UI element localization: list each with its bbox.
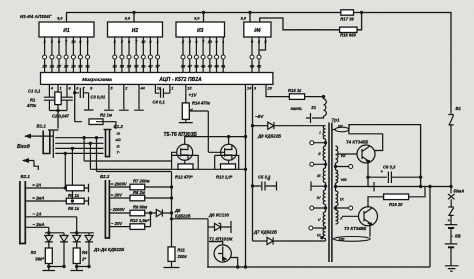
input terminal arrow Вход — [25, 135, 54, 137]
svg-text:~5V: ~5V — [255, 114, 264, 119]
И3 pin node circle — [221, 55, 225, 59]
svg-text:23: 23 — [267, 87, 273, 91]
winding IV — [323, 190, 326, 205]
svg-text:ХІІ: ХІІ — [337, 123, 344, 128]
И2 pin 2 wire — [114, 37, 116, 73]
wire XII to top right bus — [349, 125, 421, 187]
svg-text:45: 45 — [207, 64, 213, 69]
svg-text:И2: И2 — [132, 28, 139, 34]
И2 pin node circle — [127, 55, 131, 59]
И4 pin node circles — [250, 55, 254, 59]
resistor R13 — [221, 164, 236, 169]
И1 pin 1 wire — [87, 37, 89, 73]
top supply bus wire — [66, 13, 451, 107]
svg-text:В2.2: В2.2 — [100, 174, 110, 179]
svg-text:И1-И4 АЛ304Г: И1-И4 АЛ304Г — [20, 14, 52, 19]
svg-text:R8 2м: R8 2м — [133, 190, 146, 195]
svg-text:R13 1,6*: R13 1,6* — [216, 175, 233, 180]
winding VII-VIII tap terminal — [336, 163, 349, 170]
svg-text:R18 660: R18 660 — [340, 33, 357, 38]
svg-text:10: 10 — [141, 39, 146, 44]
transistor T5 — [177, 144, 193, 160]
wire drop east T5 gate — [83, 138, 85, 161]
svg-text:R2 1м: R2 1м — [100, 113, 113, 118]
svg-text:R5 1к: R5 1к — [68, 206, 80, 211]
svg-text:25: 25 — [41, 64, 47, 69]
T4 emitter wire — [367, 163, 369, 178]
winding III — [323, 168, 326, 183]
bus wire 4 — [55, 152, 103, 154]
node junction R17/R18 — [360, 11, 363, 14]
svg-text:гант.: гант. — [291, 106, 303, 111]
IC U1 Микросхема АЦП К572ПВ2А — [41, 73, 273, 85]
T6 source loop wire — [215, 155, 239, 169]
svg-text:Т4 КТ345Б: Т4 КТ345Б — [346, 140, 368, 145]
wire row to Д6/T1 — [172, 219, 210, 267]
svg-text:34: 34 — [127, 64, 132, 69]
battery cell 1 — [445, 224, 458, 226]
bottom wire left cell — [49, 264, 64, 267]
svg-text:~ 2А: ~ 2А — [33, 211, 42, 216]
T3 emitter wire — [369, 225, 371, 237]
svg-text:R16 20: R16 20 — [389, 202, 403, 207]
winding II-III tap terminal — [314, 161, 326, 169]
resistor R17 — [341, 10, 354, 15]
bottom rail wire — [207, 266, 430, 268]
И1 pin node circle — [71, 55, 75, 59]
winding VI — [323, 229, 326, 239]
winding II — [323, 146, 326, 161]
svg-text:≈ 2А: ≈ 2А — [33, 183, 42, 188]
resistor R4 — [73, 248, 80, 264]
svg-text:46: 46 — [200, 64, 206, 69]
svg-text:ХІІІ: ХІІІ — [338, 237, 346, 242]
svg-text:560*: 560* — [35, 257, 44, 262]
И2 pin 6 wire — [128, 37, 130, 73]
T1 source wire — [231, 258, 238, 268]
svg-text:С6 3,3: С6 3,3 — [383, 165, 396, 170]
И3 pin node circle — [194, 55, 198, 59]
input common terminal arrow — [23, 161, 38, 171]
svg-text:Д8 КД522Б: Д8 КД522Б — [257, 134, 281, 139]
svg-text:3,8: 3,8 — [194, 16, 200, 21]
И1 pin 7 wire — [65, 37, 67, 73]
wire jog to T4 collector — [374, 134, 383, 151]
И2 pin 4 wire — [121, 37, 123, 73]
И2 pin node circle — [141, 55, 145, 59]
И3 pin 1 wire — [222, 37, 224, 73]
svg-text:С4 0,1: С4 0,1 — [153, 100, 166, 105]
svg-text:В2.1: В2.1 — [21, 174, 31, 179]
winding VIII-IX tap bar — [336, 182, 375, 191]
svg-text:30: 30 — [78, 64, 83, 69]
svg-text:R1: R1 — [30, 98, 36, 103]
svg-text:35: 35 — [134, 64, 139, 69]
resistor R12 — [178, 164, 193, 169]
indicator И2 supply stub — [133, 13, 135, 23]
wire drop east V3 — [96, 138, 98, 172]
И1 pin node circle — [50, 55, 54, 59]
wire R18 branch — [260, 13, 362, 30]
svg-text:38: 38 — [181, 64, 186, 69]
winding V — [323, 212, 326, 227]
И1 pin 10 wire — [72, 37, 74, 73]
svg-text:Д5: Д5 — [174, 208, 181, 213]
svg-text:200к: 200к — [177, 254, 188, 259]
svg-text:ІV: ІV — [317, 195, 321, 200]
svg-text:41: 41 — [220, 64, 226, 69]
svg-text:5В: 5В — [455, 234, 461, 239]
svg-text:С5 3,3: С5 3,3 — [258, 175, 271, 180]
wire drop to R6 row — [64, 153, 66, 188]
indicator И2 — [108, 22, 163, 37]
И3 pin node circle — [181, 55, 185, 59]
T5 drain wire — [185, 137, 246, 145]
resistor R11 — [168, 247, 175, 262]
wire battery column — [450, 187, 452, 194]
svg-text:ш: ш — [117, 131, 121, 136]
wire XII lower to jog — [349, 130, 383, 134]
winding VI bottom lead — [325, 239, 327, 242]
svg-text:АЦП - К572 ПВ2А: АЦП - К572 ПВ2А — [158, 77, 202, 83]
svg-text:КД522Б: КД522Б — [175, 214, 191, 219]
svg-text:С1 0,1: С1 0,1 — [28, 89, 41, 94]
diode Д4 — [88, 233, 90, 236]
svg-text:Д1-Д4 КД522Б: Д1-Д4 КД522Б — [93, 247, 124, 252]
capacitor C6 — [368, 172, 421, 184]
indicator И1 supply stub — [66, 13, 68, 23]
И3 pin node circle — [188, 55, 192, 59]
indicator И4 — [244, 22, 271, 37]
diode Д6 zener — [208, 226, 215, 228]
svg-text:~ 2000V: ~ 2000V — [109, 207, 126, 212]
И2 pin 9 wire — [149, 37, 151, 73]
И1 pin node circle — [86, 55, 90, 59]
winding XII horizontal — [332, 129, 335, 131]
transistor T6 — [221, 144, 237, 160]
svg-text:40: 40 — [147, 64, 153, 69]
И2 pin 10 wire — [142, 37, 144, 73]
bus wire 2 — [55, 142, 103, 144]
diode Д7 — [253, 240, 268, 242]
svg-text:29: 29 — [70, 64, 76, 69]
svg-text:26: 26 — [49, 64, 55, 69]
svg-text:36: 36 — [141, 64, 146, 69]
svg-text:R10 1,6м*: R10 1,6м* — [130, 218, 150, 223]
svg-text:33: 33 — [120, 64, 125, 69]
capacitor C4 — [155, 84, 170, 97]
И1 pin node circle — [57, 55, 61, 59]
svg-text:R14 470к: R14 470к — [192, 101, 211, 106]
svg-text:42: 42 — [256, 64, 262, 69]
T4 base wire — [338, 153, 357, 155]
winding IV-V tap terminal — [314, 205, 326, 213]
T3 base wire — [342, 215, 359, 217]
svg-text:С3 0,01: С3 0,01 — [91, 95, 106, 100]
svg-text:R7 200м: R7 200м — [133, 178, 151, 183]
T5 gate corner wire — [172, 152, 177, 155]
ground R11 — [164, 261, 180, 267]
wire east to V3 — [97, 171, 172, 173]
svg-text:3,8: 3,8 — [57, 16, 63, 21]
trimmer R14 — [179, 84, 193, 122]
svg-text:10: 10 — [208, 39, 213, 44]
wire V2 pin3 vertical — [252, 84, 254, 241]
svg-text:~ 2мА: ~ 2мА — [33, 222, 45, 227]
battery ground — [445, 247, 459, 271]
И1 pin 9 wire — [79, 37, 81, 73]
resistor R1 — [57, 84, 59, 110]
И2 pin node circle — [156, 55, 160, 59]
И3 pin node circle — [201, 55, 205, 59]
svg-text:Т3 КТ345Б: Т3 КТ345Б — [344, 226, 366, 231]
winding XIII horizontal — [332, 238, 334, 240]
diode Д8 — [251, 124, 254, 127]
И3 pin 4 wire — [189, 37, 191, 73]
svg-text:≈ 2мА: ≈ 2мА — [33, 196, 45, 201]
indicator И3 — [176, 22, 225, 37]
svg-text:R6 1к: R6 1к — [68, 193, 80, 198]
ground right cell — [71, 267, 84, 271]
bus wire 3 — [55, 147, 103, 149]
wire drop east common — [89, 143, 91, 169]
winding IX-X tap terminal — [336, 206, 349, 210]
svg-text:3,8: 3,8 — [240, 16, 246, 21]
diode Д5 — [151, 212, 157, 214]
wire pin23 to R15 — [266, 84, 289, 96]
indicator И1 — [39, 22, 94, 37]
svg-text:кΩ: кΩ — [116, 137, 122, 142]
supply rail wire — [368, 186, 451, 188]
svg-text:44: 44 — [140, 87, 146, 91]
bus wire 1 — [55, 137, 103, 139]
wire right return vertical — [429, 187, 431, 268]
И3 pin 10 wire — [209, 37, 211, 73]
wire emitter to rail — [367, 177, 369, 186]
И3 pin node circle — [215, 55, 219, 59]
svg-text:ІХ: ІХ — [340, 197, 344, 202]
И3 pin 9 wire — [216, 37, 218, 73]
svg-text:Вход: Вход — [17, 144, 31, 150]
И1 pin node circle — [78, 55, 82, 59]
capacitor C2 — [62, 84, 73, 110]
И4 pin wires — [252, 37, 266, 73]
winding X — [336, 210, 339, 224]
T5 source loop wire — [172, 155, 199, 169]
wire ~2A corner to diode pair — [77, 216, 79, 218]
svg-text:Микросхема: Микросхема — [82, 77, 112, 83]
IC ground pin stubs — [104, 84, 144, 110]
winding VIII — [336, 170, 339, 183]
capacitor C1 — [44, 84, 55, 110]
svg-text:V: V — [318, 217, 321, 222]
wire common rail C1 R1 C2 — [49, 111, 67, 129]
И2 pin node circle — [120, 55, 124, 59]
svg-text:37: 37 — [155, 64, 160, 69]
diode Д1 — [48, 233, 50, 236]
svg-text:32: 32 — [112, 64, 117, 69]
svg-text:50мА: 50мА — [454, 189, 465, 194]
winding V-VI tap terminal — [314, 227, 326, 229]
И1 pin 2 wire — [44, 37, 46, 73]
capacitor C5 — [251, 184, 254, 187]
svg-text:10: 10 — [71, 39, 76, 44]
inductor/phone З1 — [322, 95, 325, 98]
diode Д3 — [76, 233, 78, 236]
wire east to T5 gate — [84, 160, 172, 162]
И3 pin node circle — [208, 55, 212, 59]
svg-text:43: 43 — [249, 64, 255, 69]
svg-text:39: 39 — [194, 64, 199, 69]
svg-text:1: 1 — [171, 87, 173, 91]
svg-text:И1: И1 — [63, 28, 70, 34]
svg-text:В1.1: В1.1 — [37, 124, 47, 129]
svg-text:3,8: 3,8 — [124, 16, 130, 21]
diode Д2 — [63, 233, 65, 236]
svg-text:И4: И4 — [254, 28, 261, 34]
svg-text:~ 20V: ~ 20V — [111, 221, 123, 226]
winding I — [323, 126, 326, 139]
T1 drain wire — [209, 242, 223, 245]
diode bridge top wire left — [45, 232, 64, 234]
svg-text:Т1 КП103Ж: Т1 КП103Ж — [209, 237, 234, 242]
winding I-II tap terminal — [314, 139, 326, 146]
svg-text:R15 1к: R15 1к — [288, 88, 302, 93]
svg-text:R12 470*: R12 470* — [175, 175, 193, 180]
И3 pin 7 wire — [202, 37, 204, 73]
resistor R15 — [289, 94, 304, 100]
svg-text:2*: 2* — [81, 257, 86, 262]
И2 pin 1 wire — [157, 37, 159, 73]
switch battery — [448, 207, 453, 225]
svg-text:28: 28 — [63, 64, 69, 69]
svg-text:Тр1: Тр1 — [332, 118, 340, 123]
svg-text:+: + — [448, 218, 451, 223]
И3 pin 6 wire — [195, 37, 197, 73]
svg-text:R9 80м: R9 80м — [133, 204, 148, 209]
svg-text:R17 39: R17 39 — [340, 17, 354, 22]
И3 pin 2 wire — [182, 37, 184, 73]
wire drop to R5 row — [71, 148, 73, 201]
svg-text:1: 1 — [60, 87, 62, 91]
resistor R16 — [368, 187, 425, 207]
wire V3 vertical — [171, 172, 173, 247]
battery cell 2 — [445, 228, 458, 244]
diode bridge top wire right — [70, 232, 94, 234]
ground left cell — [43, 267, 56, 271]
svg-text:+1V: +1V — [189, 93, 198, 98]
transformer core — [329, 123, 332, 263]
И2 pin node circle — [134, 55, 138, 59]
bottom wire right cell — [77, 264, 89, 267]
svg-text:≈ 20V: ≈ 20V — [111, 193, 123, 198]
svg-text:≈ 2000V: ≈ 2000V — [111, 182, 128, 187]
svg-text:31: 31 — [85, 64, 90, 69]
winding III-IV tap bar — [311, 182, 326, 191]
svg-text:VІІІ: VІІІ — [341, 177, 348, 182]
svg-text:В1.2: В1.2 — [114, 124, 124, 129]
svg-text:R11: R11 — [178, 248, 186, 253]
T6 drain wire — [228, 137, 230, 145]
И2 pin 7 wire — [135, 37, 137, 73]
svg-text:R3: R3 — [31, 250, 37, 255]
svg-text:47: 47 — [186, 64, 192, 69]
svg-text:R4: R4 — [82, 250, 88, 255]
svg-text:470к: 470к — [26, 103, 37, 108]
resistor R2 — [89, 119, 103, 125]
И1 pin node circle — [64, 55, 68, 59]
И2 pin node circle — [113, 55, 117, 59]
svg-text:С2 0,047: С2 0,047 — [52, 114, 70, 119]
indicator И4 supply stub — [249, 13, 251, 23]
И1 pin 6 wire — [58, 37, 60, 73]
capacitor C3 — [75, 88, 94, 110]
И1 pin node circle — [43, 55, 47, 59]
svg-text:И3: И3 — [197, 28, 204, 34]
И1 pin 4 wire — [51, 37, 53, 73]
winding VII — [336, 146, 339, 163]
svg-text:27: 27 — [56, 64, 62, 69]
svg-text:З1: З1 — [311, 105, 317, 110]
wire east common rail — [90, 168, 245, 170]
resistor R18 — [340, 27, 357, 32]
svg-text:В1: В1 — [456, 106, 462, 111]
resistor R3 — [45, 248, 52, 264]
И2 pin node circle — [148, 55, 152, 59]
svg-text:Д7 КД522Б: Д7 КД522Б — [253, 230, 277, 235]
svg-text:44: 44 — [213, 64, 219, 69]
wire pin7 to R2 — [74, 84, 76, 121]
indicator И3 supply stub — [203, 13, 205, 23]
winding IX — [336, 191, 339, 206]
svg-text:Д6 КС133: Д6 КС133 — [208, 212, 230, 217]
wire V1 pin14 vertical — [245, 84, 247, 267]
